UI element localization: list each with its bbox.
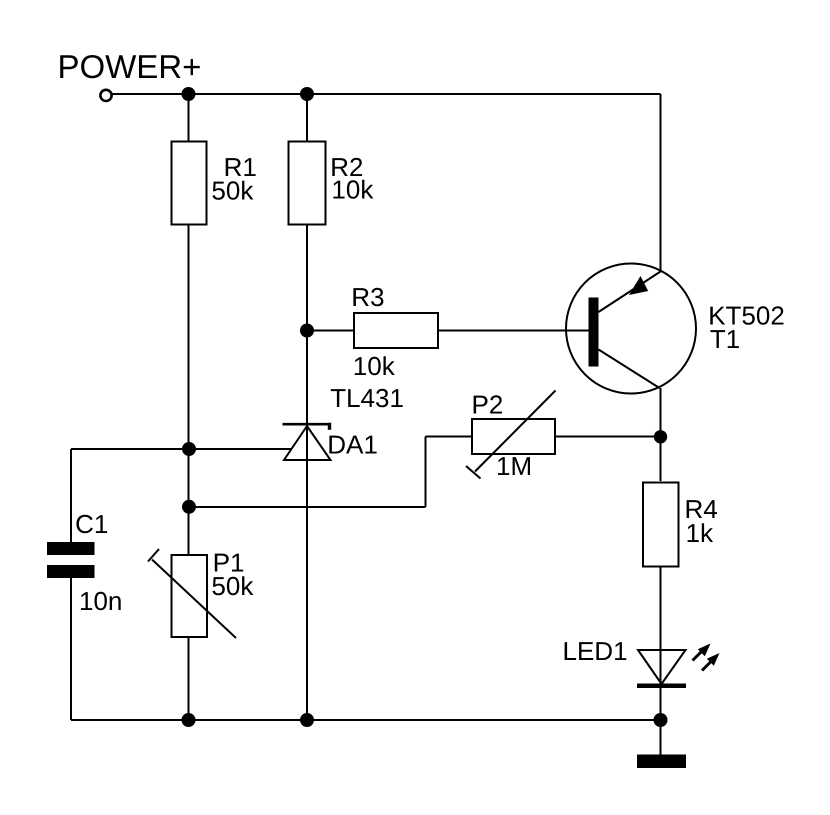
junction ref/R1 column <box>182 442 196 456</box>
junction bottom P1 column <box>182 713 196 727</box>
potentiometer P2 body <box>472 419 555 454</box>
label POWER+ <box>60 55 200 78</box>
resistor R2 body <box>289 142 326 225</box>
wire bottom rail <box>71 719 661 721</box>
shunt regulator DA1 cathode tab <box>328 423 331 430</box>
shunt regulator DA1 triangle <box>284 426 331 460</box>
wire P2 right lead <box>555 436 661 438</box>
junction bottom DA1 column <box>300 713 314 727</box>
junction R2/R3 node <box>300 324 314 338</box>
resistor R3 body <box>354 313 438 348</box>
ground symbol <box>637 755 686 769</box>
wire P1 bottom lead <box>188 637 190 720</box>
wire R3 left lead <box>307 330 354 332</box>
label C1 <box>76 515 107 534</box>
label 10n (C1) <box>81 592 121 611</box>
capacitor C1 top plate <box>47 542 95 555</box>
junction collector/P2 <box>654 430 667 443</box>
label P1 <box>215 554 243 572</box>
terminal POWER+ <box>100 90 111 101</box>
label KT502 <box>710 306 783 325</box>
potentiometer P2 wiper tick <box>466 466 481 479</box>
resistor R1 body <box>172 142 207 225</box>
potentiometer P1 wiper diagonal <box>152 560 236 639</box>
label 50k (P1) <box>212 576 253 595</box>
junction bottom LED column <box>654 713 668 727</box>
transistor T1 emitter arrow <box>629 276 648 295</box>
junction top R2 <box>300 87 314 101</box>
wire T1 emitter to top rail <box>660 94 662 272</box>
wire top rail <box>112 93 661 95</box>
LED LED1 cathode bar <box>637 684 686 689</box>
label T1 <box>710 330 739 348</box>
capacitor C1 top lead <box>70 449 72 542</box>
transistor T1 circle <box>566 264 696 394</box>
wire feedback row <box>189 506 426 508</box>
label R1 <box>226 158 256 176</box>
potentiometer P1 wiper tick <box>148 549 159 562</box>
junction feedback node <box>182 500 196 514</box>
wire ground lead <box>660 720 662 755</box>
capacitor C1 bottom plate <box>47 565 95 578</box>
LED LED1 triangle <box>638 650 686 684</box>
capacitor C1 bottom lead <box>70 578 72 720</box>
label TL431 <box>331 389 403 408</box>
wire R1 top lead <box>188 94 190 142</box>
label P2 <box>474 395 502 413</box>
shunt regulator DA1 cathode bar <box>283 423 332 426</box>
transistor T1 emitter line <box>599 272 661 313</box>
transistor T1 collector line <box>599 350 660 389</box>
label 50k (R1) <box>212 181 253 200</box>
potentiometer P2 wiper diagonal <box>475 391 556 472</box>
label 1k (R4) <box>688 523 714 542</box>
wire R2 bottom through DA1 column <box>306 225 308 721</box>
label DA1 <box>329 436 376 454</box>
label LED1 <box>565 642 627 660</box>
LED LED1 light arrow 1 <box>693 644 711 661</box>
wire P2 left lead <box>426 436 473 438</box>
label R4 <box>687 500 717 518</box>
label 1M (P2) <box>498 457 530 475</box>
wire feedback riser <box>425 437 427 508</box>
wire R1 bottom to node column <box>188 225 190 556</box>
label 10k (R3) <box>355 356 395 375</box>
wire R3 right lead to base <box>438 330 589 332</box>
wire R2 top lead <box>306 94 308 142</box>
potentiometer P1 body <box>172 555 208 637</box>
wire R4 to LED <box>660 567 662 721</box>
label 10k (R2) <box>333 180 373 199</box>
label R2 <box>332 158 362 176</box>
junction top R1 <box>182 87 196 101</box>
wire T1 collector down <box>660 388 662 481</box>
wire DA1 reference lead <box>71 448 292 450</box>
label R3 <box>353 288 383 307</box>
LED LED1 light arrow 2 <box>702 653 720 671</box>
transistor T1 base bar <box>589 298 599 367</box>
resistor R4 body <box>643 483 679 567</box>
